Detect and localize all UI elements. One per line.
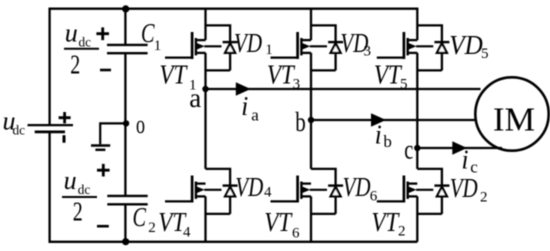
svg-text:4: 4: [264, 185, 272, 201]
svg-text:VT: VT: [267, 59, 296, 89]
svg-text:i: i: [462, 144, 469, 174]
svg-text:6: 6: [292, 226, 300, 242]
svg-text:VT: VT: [264, 207, 293, 237]
svg-text:o: o: [136, 110, 145, 139]
svg-text:VT: VT: [371, 207, 400, 237]
svg-text:1: 1: [189, 78, 197, 94]
svg-text:C: C: [133, 202, 147, 232]
svg-text:b: b: [295, 107, 306, 137]
svg-text:2: 2: [480, 189, 488, 205]
svg-text:2: 2: [70, 50, 80, 80]
svg-text:3: 3: [293, 77, 301, 93]
svg-text:i: i: [241, 91, 248, 121]
svg-text:i: i: [375, 119, 382, 149]
svg-text:5: 5: [481, 46, 489, 62]
svg-text:VD: VD: [343, 172, 371, 202]
svg-text:4: 4: [183, 225, 191, 241]
svg-text:IM: IM: [493, 102, 535, 139]
svg-text:c: c: [470, 157, 478, 176]
svg-text:dc: dc: [13, 124, 26, 139]
svg-text:a: a: [251, 106, 259, 125]
svg-text:VD: VD: [235, 172, 263, 202]
svg-text:VT: VT: [159, 59, 188, 89]
svg-text:dc: dc: [79, 35, 92, 50]
svg-text:VD: VD: [450, 173, 478, 203]
svg-text:6: 6: [370, 188, 378, 204]
svg-text:2: 2: [398, 224, 406, 240]
svg-text:u: u: [65, 19, 78, 48]
svg-text:b: b: [383, 132, 392, 151]
svg-text:2: 2: [73, 196, 83, 226]
svg-text:VD: VD: [449, 30, 483, 60]
svg-text:2: 2: [148, 220, 156, 236]
svg-text:1: 1: [265, 42, 273, 58]
svg-text:VD: VD: [234, 28, 262, 58]
svg-text:u: u: [64, 166, 77, 195]
svg-text:5: 5: [400, 77, 408, 93]
svg-text:1: 1: [154, 38, 162, 54]
svg-text:c: c: [404, 135, 413, 165]
svg-text:3: 3: [364, 44, 372, 60]
svg-text:VT: VT: [374, 59, 403, 89]
